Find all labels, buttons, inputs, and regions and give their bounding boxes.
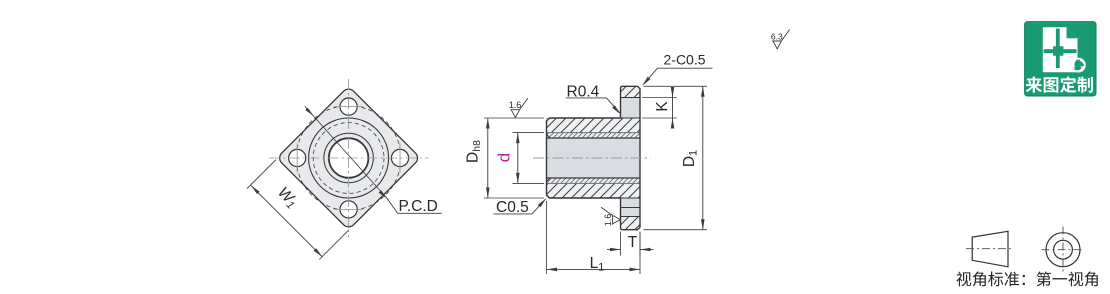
sleeve OD circle [324,133,373,182]
hatch region main 1 [547,118,641,133]
bore line lower [547,177,641,179]
svg-text:W1: W1 [273,184,301,212]
badge pen circle [1071,58,1086,73]
T extension lines [620,232,622,256]
frustum centerline [966,248,1014,250]
badge crosshair [1056,29,1060,68]
R0.4 leader [566,97,607,99]
badge background [1025,22,1096,96]
svg-text:d: d [495,153,514,162]
d dimension line [517,133,519,184]
bore entry chamfer lower [547,178,551,182]
P.C.D arrow upper [305,108,314,117]
hatch region sleeve 2 [547,178,641,183]
projection circle inner [1054,240,1073,259]
P.C.D arrow lower [379,190,388,199]
projection circle outer [1046,233,1080,267]
C0.5 leader [494,213,533,215]
projection crosshair v [1062,227,1064,273]
W1 extension line upper [247,160,276,189]
flange step line upper [621,97,641,99]
bore entry chamfer upper [547,134,551,138]
surface finish 6.3 (general) [772,30,790,49]
section centerline [533,157,651,159]
Dh8 extension lines [484,117,544,119]
section outline [547,86,641,229]
P.C.D diagonal reference line [305,106,388,199]
flange square outline (front view) [277,86,421,230]
inner hidden circle (dashed) [313,123,384,194]
hole tick top [334,106,363,108]
2-C0.5 leader [658,67,713,69]
bolt hole top [340,98,357,115]
svg-text:K: K [654,101,671,112]
K extension lines [642,97,677,99]
svg-text:D1: D1 [681,150,700,167]
bore line upper [547,137,641,139]
svg-text:1.6: 1.6 [603,214,613,227]
chamfer body top-left [547,118,550,121]
flange step line lower [621,216,641,218]
hole tick right [399,144,401,173]
hole tick left [296,144,298,173]
badge document icon [1043,27,1078,72]
bore fill [547,138,641,178]
body OD circle [309,118,389,198]
badge text [1026,77,1042,93]
svg-text:2-C0.5: 2-C0.5 [664,52,706,68]
K dimension line [672,89,674,128]
flange body-bottom line [621,197,641,199]
projection crosshair h [1042,249,1085,251]
flange recess band upper fill [621,98,641,119]
front view vertical centerline [348,79,350,238]
W1 dimension line [251,185,323,257]
D1 extension lines [644,85,708,87]
D1 dimension line [702,86,704,229]
L1 dimension line [547,268,641,270]
flange recess band lower fill [621,198,641,217]
Dh8 dimension line [487,118,489,198]
frustum symbol [972,231,1008,266]
P.C.D bolt circle (dashed) [296,106,401,211]
hole tick bottom [334,208,363,210]
sleeve OD line upper [547,132,641,134]
svg-text:1.6: 1.6 [509,100,522,110]
svg-text:Dh8: Dh8 [465,140,484,163]
chamfer body bottom-left [547,195,550,198]
flange mid step line [621,207,641,209]
T dimension line [607,249,621,251]
surface finish 1.6 (top left) [510,98,528,117]
svg-text:L1: L1 [590,255,605,274]
hatch region sleeve 1 [547,133,641,138]
svg-text:P.C.D: P.C.D [399,198,438,215]
L1 extension lines [546,201,548,274]
svg-text:6.3: 6.3 [771,31,783,41]
hatch region main 4 [621,217,641,230]
svg-text:T: T [628,234,638,251]
W1 extension line lower [319,231,348,260]
bolt hole right [391,149,408,166]
hatch region main 3 [621,86,641,97]
sleeve OD line lower [547,182,641,184]
front view horizontal centerline [269,157,429,159]
bore circle [329,138,369,178]
d extension lines [513,132,545,134]
bolt hole left [289,149,306,166]
bolt hole bottom [340,201,357,218]
P.C.D leader [387,199,397,214]
flange body-top line [621,117,641,119]
hatch region main 2 [547,183,641,198]
caption first-angle projection text [956,272,971,287]
surface finish 1.6 (flange face) [601,207,620,225]
